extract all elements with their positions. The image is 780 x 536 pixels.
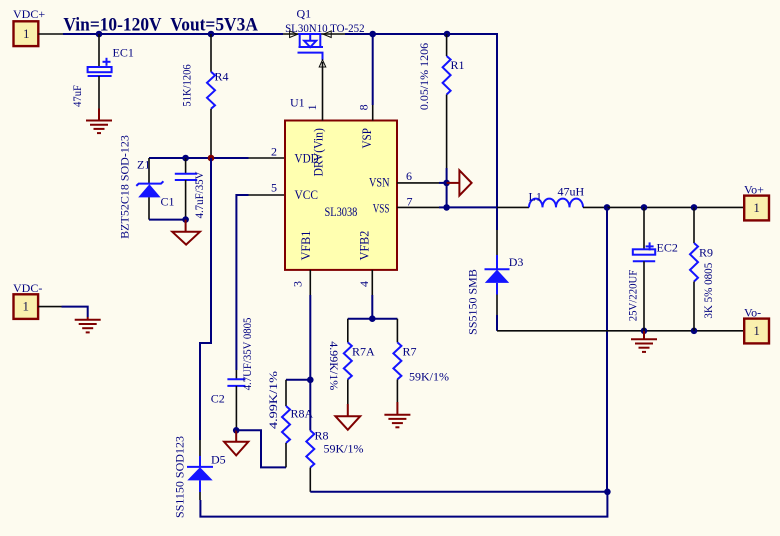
junction R4/Vin: [208, 31, 215, 38]
junction R4/VDD: [208, 155, 215, 162]
svg-text:3K 5% 0805: 3K 5% 0805: [701, 263, 715, 319]
junction VFB2: [369, 315, 376, 322]
diode D3: [466, 255, 524, 335]
svg-text:EC2: EC2: [657, 241, 678, 255]
capacitor C2: [211, 318, 254, 431]
svg-text:1: 1: [753, 200, 760, 215]
junction EC2/Vout: [641, 204, 648, 211]
svg-text:EC1: EC1: [113, 46, 134, 60]
svg-text:1: 1: [753, 323, 760, 338]
svg-text:VSN: VSN: [369, 175, 390, 190]
wire VFB2 rail: [348, 318, 398, 320]
junction Vout/feedback: [604, 204, 611, 211]
svg-text:SL30N10 TO-252: SL30N10 TO-252: [285, 21, 365, 35]
wire Vin rail: [38, 34, 497, 256]
svg-text:0.05/1% 1206: 0.05/1% 1206: [417, 43, 431, 110]
ground R7: [384, 402, 410, 427]
resistor R4: [180, 34, 229, 158]
resistor R7A: [327, 319, 375, 404]
svg-text:C2: C2: [211, 392, 225, 406]
wire VFB1 to R8A: [286, 379, 310, 381]
inductor L1: [529, 185, 585, 208]
svg-text:47uH: 47uH: [558, 185, 585, 199]
junction R1/switch-node: [444, 31, 451, 38]
svg-text:Vo+: Vo+: [744, 183, 764, 197]
svg-text:VCC: VCC: [295, 187, 319, 202]
svg-text:Vo-: Vo-: [744, 306, 761, 320]
resistor R7: [393, 319, 449, 402]
wire Vout rail: [607, 206, 744, 208]
wire R8 to feedback: [310, 491, 607, 493]
wire D5 anode rail: [200, 492, 607, 517]
wire VDD to D5: [200, 158, 211, 440]
port VDC-: [13, 281, 42, 319]
wire VCC net: [236, 195, 285, 379]
port Vo-: [744, 306, 769, 344]
junction EC1/Vin: [96, 31, 103, 38]
ground output: [631, 331, 657, 352]
wire C2 to R8A: [236, 430, 286, 467]
svg-text:R7A: R7A: [352, 345, 375, 359]
svg-text:DRV(Vin): DRV(Vin): [310, 128, 325, 177]
pin 7 wire: [397, 206, 447, 208]
svg-text:L1: L1: [529, 189, 542, 203]
svg-text:VFB1: VFB1: [298, 231, 313, 261]
capacitor C1: [161, 158, 206, 220]
pin 1 wire: [322, 62, 324, 121]
wire Z1 anode to C1: [149, 219, 186, 221]
svg-text:3: 3: [291, 281, 305, 287]
resistor R8A: [266, 371, 314, 467]
svg-text:D3: D3: [509, 255, 524, 269]
junction C1/VDD: [182, 155, 189, 162]
svg-text:R4: R4: [215, 70, 229, 84]
svg-text:BZT52C18 SOD-123: BZT52C18 SOD-123: [118, 135, 132, 239]
junction EC2/gnd: [641, 328, 648, 335]
svg-text:Z1: Z1: [137, 158, 150, 172]
svg-text:VSP: VSP: [359, 128, 374, 149]
diode D5: [173, 436, 226, 518]
port Vo+: [744, 183, 769, 221]
ground C2: [224, 430, 248, 455]
svg-text:51K/1206: 51K/1206: [180, 64, 194, 106]
svg-text:D5: D5: [211, 453, 226, 467]
junction feedback bottom: [604, 489, 611, 496]
capacitor EC1: [70, 34, 134, 109]
svg-text:8: 8: [356, 104, 370, 110]
wire L1 to output: [583, 206, 607, 208]
pin 6 wire: [397, 182, 447, 184]
resistor R1: [417, 34, 465, 168]
pin 8 wire: [372, 34, 374, 121]
junction VSS: [443, 204, 450, 211]
node VSN arrow marker: [447, 170, 472, 195]
svg-text:4: 4: [357, 281, 371, 287]
pin 3 wire: [309, 270, 311, 380]
ground EC1: [86, 109, 112, 134]
wire VDC- to ground: [38, 307, 88, 317]
junction VSN: [443, 180, 450, 187]
svg-text:VDC+: VDC+: [13, 7, 45, 21]
svg-text:1: 1: [23, 299, 30, 314]
port VDC+: [13, 7, 45, 46]
ground C1: [172, 220, 200, 245]
svg-text:4.99K/1%: 4.99K/1%: [327, 341, 341, 390]
svg-text:1: 1: [305, 104, 319, 110]
svg-text:R9: R9: [699, 246, 713, 260]
svg-text:59K/1%: 59K/1%: [324, 442, 364, 456]
wire VSN-VSS: [446, 168, 448, 207]
resistor R8: [306, 380, 363, 492]
svg-text:Q1: Q1: [297, 7, 312, 21]
junction pin8/switch-node: [369, 31, 376, 38]
svg-text:25V/220UF: 25V/220UF: [625, 269, 639, 321]
svg-text:SS5150 SMB: SS5150 SMB: [466, 269, 480, 335]
svg-text:4.7UF/35V 0805: 4.7UF/35V 0805: [240, 318, 254, 391]
svg-text:1: 1: [23, 26, 30, 41]
svg-text:2: 2: [271, 145, 277, 159]
junction R9/gnd: [691, 328, 698, 335]
ground R7A: [335, 404, 360, 430]
svg-text:SL3038: SL3038: [325, 204, 358, 219]
wire VDD rail: [149, 157, 285, 159]
pin 4 wire: [371, 270, 373, 319]
svg-text:47uF: 47uF: [70, 85, 84, 107]
svg-text:R7: R7: [403, 345, 417, 359]
capacitor EC2: [625, 207, 678, 330]
svg-text:VFB2: VFB2: [357, 231, 372, 261]
svg-text:4.7uF/35V: 4.7uF/35V: [192, 171, 206, 218]
svg-text:R8: R8: [315, 429, 329, 443]
svg-text:6: 6: [406, 169, 412, 183]
svg-text:VDC-: VDC-: [13, 281, 42, 295]
svg-text:VSS: VSS: [373, 200, 390, 215]
wire feedback sense: [606, 207, 608, 491]
ground VDC-: [75, 317, 101, 332]
junction R9/Vout: [691, 204, 698, 211]
svg-text:4.99K/1%: 4.99K/1%: [266, 371, 280, 429]
svg-text:SS1150 SOD123: SS1150 SOD123: [173, 436, 187, 518]
wire Vo- rail: [497, 330, 744, 332]
IC U1 SL3038: [285, 96, 397, 270]
junction VFB1: [307, 377, 314, 384]
transistor Q1: [285, 7, 365, 68]
wire VSS to L1: [447, 206, 529, 208]
svg-text:59K/1%: 59K/1%: [409, 370, 449, 384]
svg-text:U1: U1: [290, 96, 305, 110]
zener Z1: [118, 135, 164, 239]
svg-text:Vin=10-120V Vout=5V3A: Vin=10-120V Vout=5V3A: [63, 14, 258, 35]
svg-text:R1: R1: [451, 58, 465, 72]
junction C2/ground: [233, 427, 240, 434]
junction C1/ground: [182, 216, 189, 223]
resistor R9: [690, 207, 715, 330]
svg-text:7: 7: [407, 195, 413, 209]
svg-text:C1: C1: [161, 195, 175, 209]
svg-text:5: 5: [271, 181, 277, 195]
